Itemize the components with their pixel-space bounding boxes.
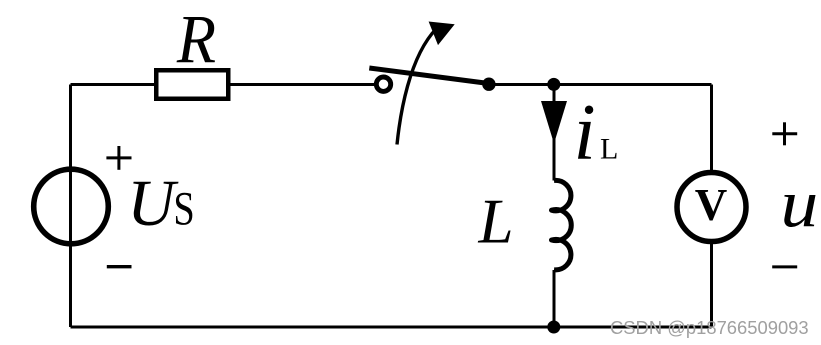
svg-text:U: U	[127, 167, 179, 240]
svg-text:L: L	[600, 133, 618, 166]
svg-text:u: u	[781, 165, 819, 241]
svg-text:V: V	[695, 180, 728, 230]
svg-text:S: S	[173, 183, 194, 236]
svg-text:i: i	[574, 89, 596, 177]
svg-text:CSDN @p18766509093: CSDN @p18766509093	[610, 317, 809, 338]
svg-text:R: R	[176, 2, 216, 78]
svg-text:L: L	[478, 187, 514, 257]
